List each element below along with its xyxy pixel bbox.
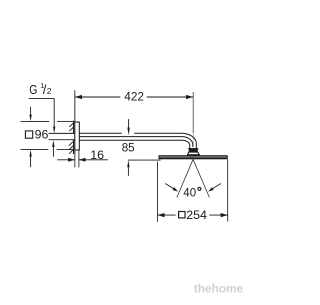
svg-text:2: 2 bbox=[47, 86, 52, 96]
svg-text:254: 254 bbox=[186, 208, 207, 222]
svg-text:422: 422 bbox=[124, 90, 144, 104]
svg-text:16: 16 bbox=[90, 148, 104, 162]
svg-text:40: 40 bbox=[183, 187, 196, 199]
svg-text:96: 96 bbox=[35, 128, 49, 142]
svg-text:G: G bbox=[29, 82, 37, 97]
svg-text:thehome: thehome bbox=[194, 282, 244, 296]
svg-text:85: 85 bbox=[122, 141, 135, 154]
